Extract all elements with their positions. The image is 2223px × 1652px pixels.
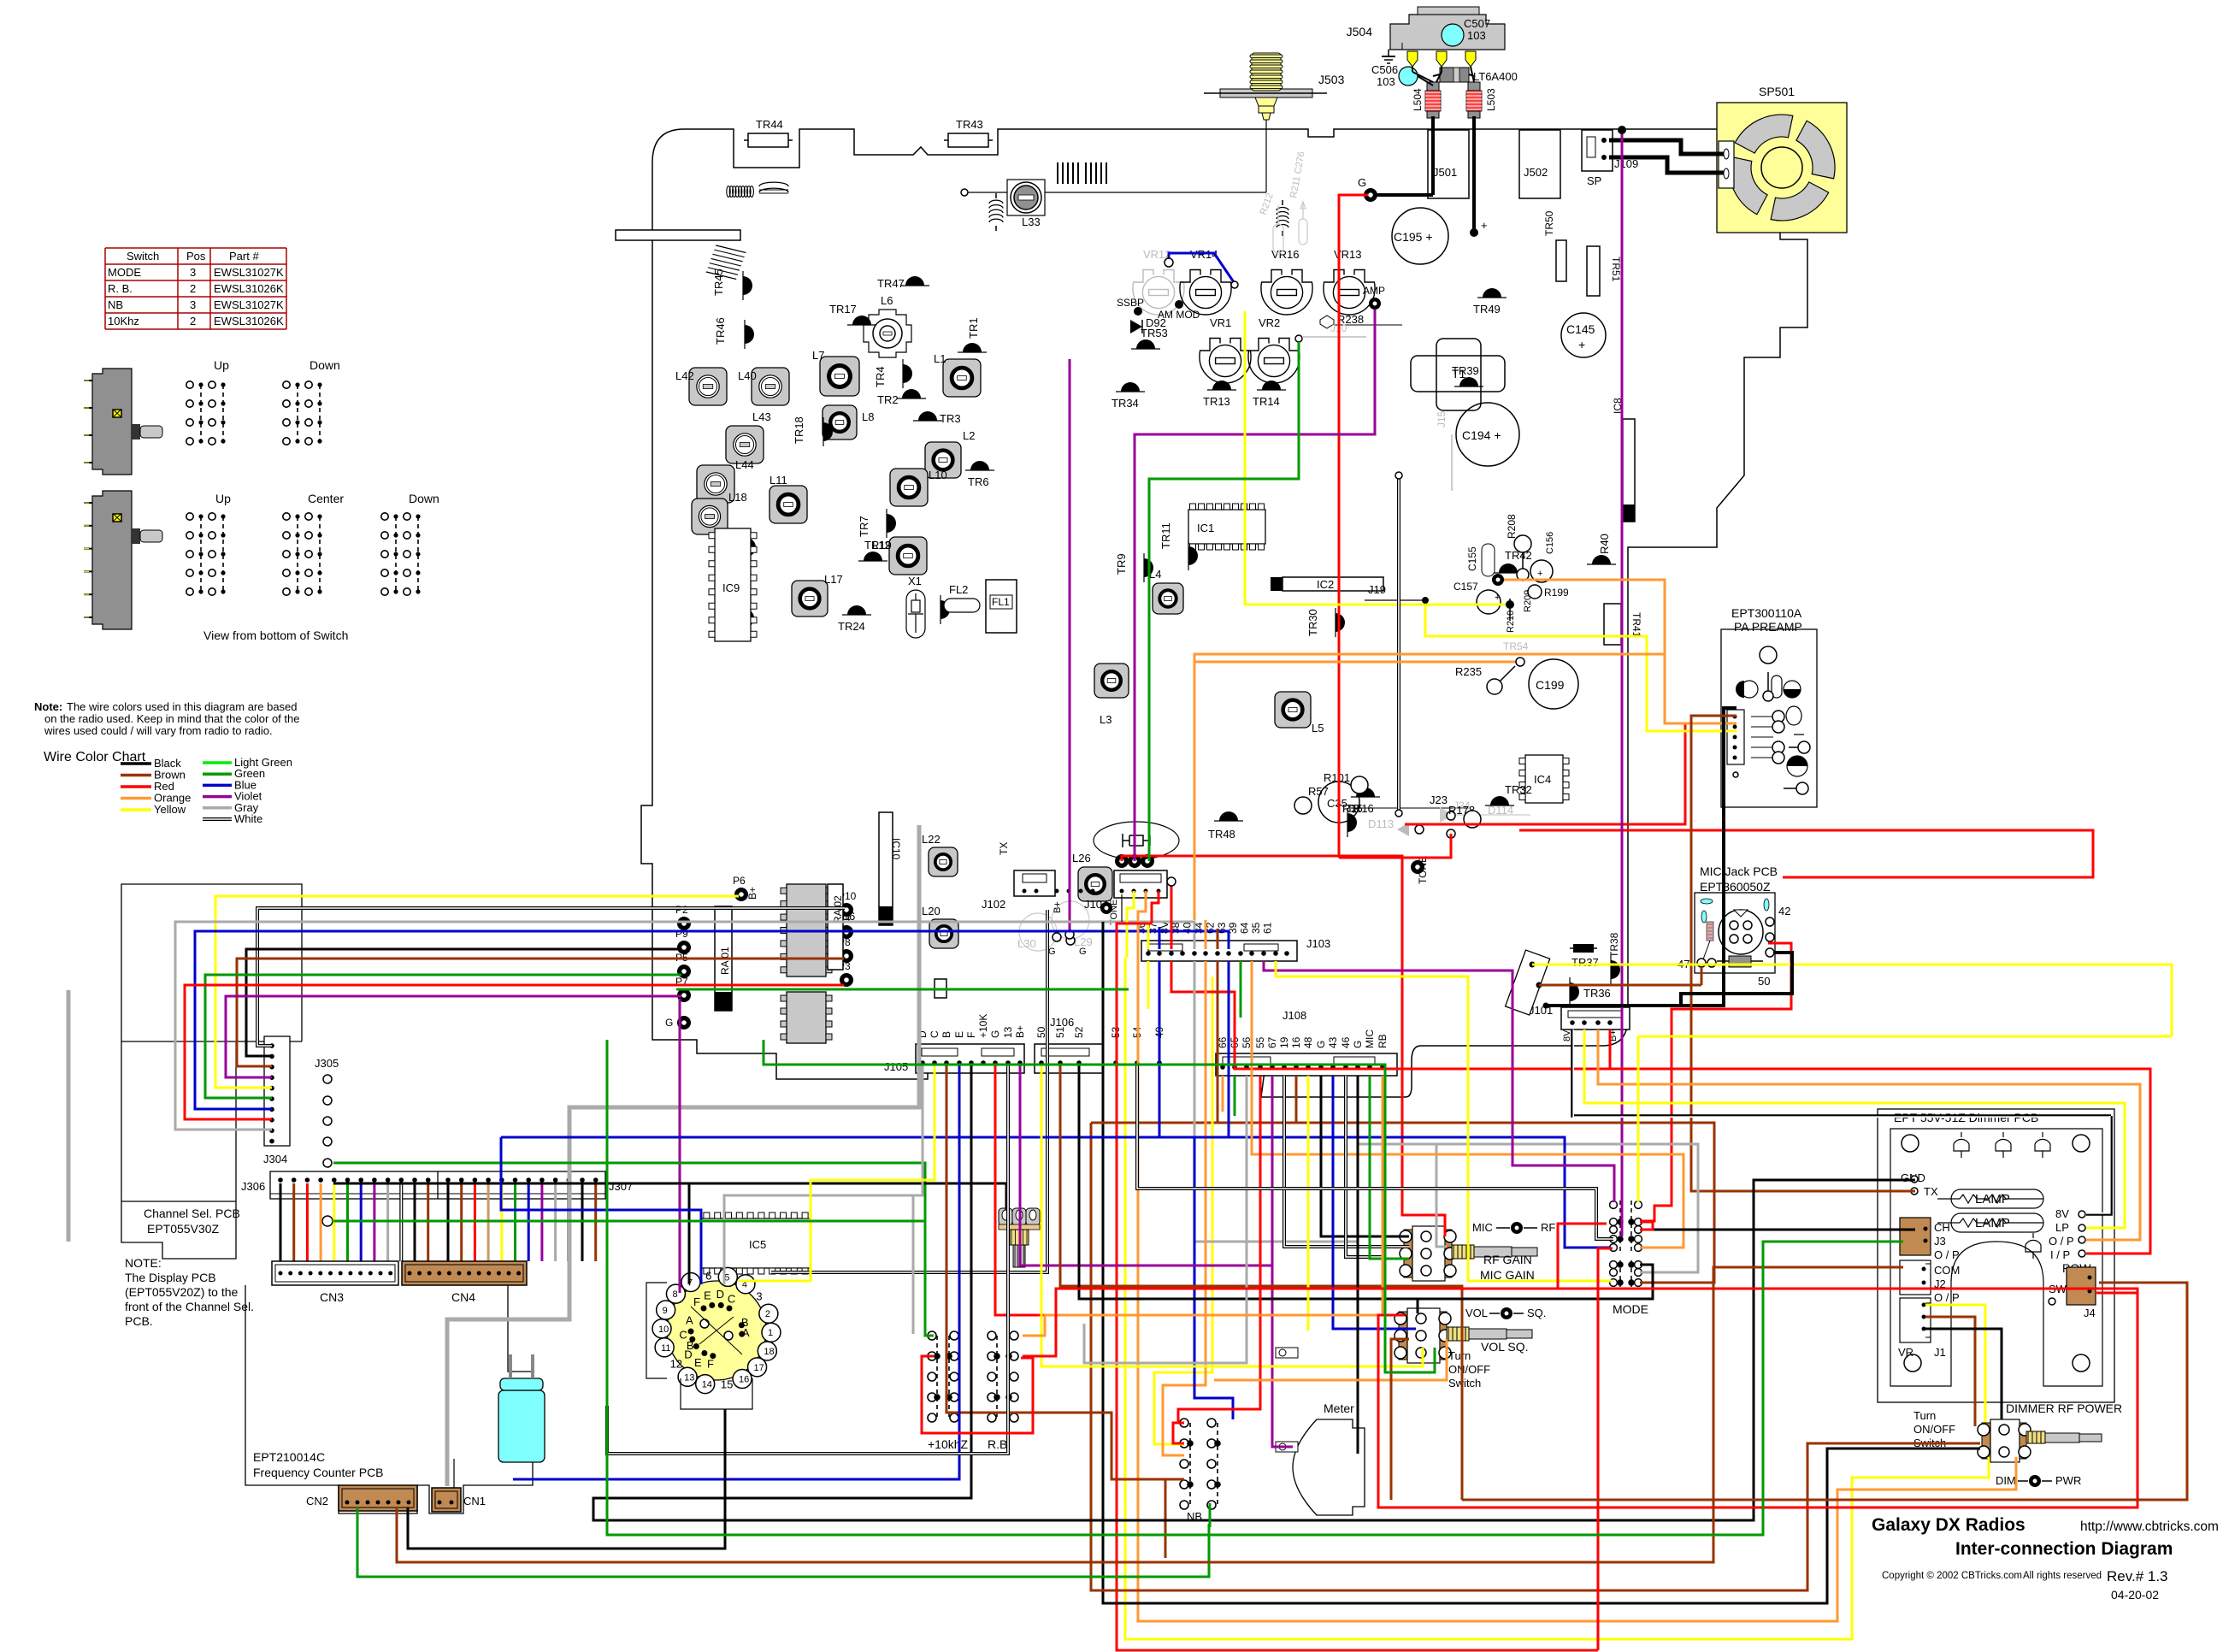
connector J504 with C507 [1390, 15, 1505, 50]
trimmer VR16 [1261, 270, 1312, 316]
transistor TR15 [1347, 808, 1357, 837]
svg-text:White: White [234, 812, 262, 825]
svg-text:EWSL31027K: EWSL31027K [214, 266, 284, 279]
svg-text:L43: L43 [752, 410, 771, 423]
svg-text:DIMMER RF POWER: DIMMER RF POWER [2006, 1401, 2122, 1415]
transistor TR8 [940, 595, 950, 624]
J108 G black to RF gain [1321, 1076, 1409, 1236]
green left vertical to dimmer J3 [607, 1040, 1903, 1535]
svg-text:C155: C155 [1466, 546, 1478, 571]
svg-text:+: + [1495, 593, 1500, 603]
svg-text:The Display PCB: The Display PCB [125, 1271, 216, 1284]
svg-text:G: G [1048, 947, 1056, 957]
IC IC1 [1188, 510, 1265, 544]
wire: red horizontal junction row [1122, 856, 1445, 1236]
svg-text:All rights reserved: All rights reserved [2023, 1571, 2102, 1581]
svg-text:Up: Up [214, 358, 229, 372]
resistor TR44 [748, 133, 788, 147]
IC2 [1282, 577, 1383, 591]
wire: black bundle to PA preamp [1546, 708, 1737, 1006]
orange VOL to left [1214, 1339, 1447, 1380]
wire: purple long from SP area down to MODE [1621, 130, 1624, 1236]
svg-text:VOL SQ.: VOL SQ. [1481, 1340, 1529, 1354]
wire color legend [121, 762, 151, 765]
capacitor C145 [1561, 313, 1606, 357]
svg-text:TR30: TR30 [1306, 609, 1319, 636]
IC IC9 [715, 528, 751, 641]
svg-text:2: 2 [765, 1309, 770, 1319]
resistor R245 coil [1277, 208, 1288, 227]
potentiometer [1404, 1230, 1412, 1277]
gray thick left vertical [67, 990, 71, 1242]
vertical bars IC8 region [1057, 162, 1058, 184]
svg-text:O / P: O / P [2049, 1235, 2074, 1248]
J103 34 orange to NB [1163, 961, 1206, 1455]
switch contact diagram [186, 513, 226, 595]
green horizontal mid [676, 988, 1129, 991]
transistor TR53 [1131, 339, 1160, 349]
speaker SP501 [1717, 103, 1847, 233]
svg-text:MIC: MIC [1364, 1030, 1376, 1048]
svg-text:R. B.: R. B. [108, 282, 133, 295]
capacitor C507 [1442, 24, 1464, 46]
blue NB drop [1194, 1137, 1233, 1419]
rotary bracket lines [646, 1283, 752, 1409]
svg-text:50: 50 [1035, 1026, 1047, 1038]
svg-text:TR24: TR24 [838, 620, 865, 633]
svg-text:C35: C35 [1327, 797, 1347, 810]
J304 connector [264, 1036, 290, 1146]
switch contact diagram [381, 513, 421, 595]
svg-text:TR54: TR54 [1503, 640, 1529, 652]
svg-text:64: 64 [1239, 922, 1251, 934]
svg-text:VR2: VR2 [1259, 316, 1280, 329]
J106 52 black to MODE [1079, 1065, 1653, 1299]
IC10 strip [879, 812, 893, 925]
J1 connector [1900, 1298, 1931, 1342]
svg-text:13: 13 [1002, 1026, 1014, 1038]
J108 55 red to NB [1178, 1076, 1260, 1423]
svg-text:D113: D113 [1368, 817, 1394, 830]
inductor L20 [929, 919, 958, 948]
svg-text:61: 61 [1261, 922, 1273, 934]
svg-text:L8: L8 [862, 410, 874, 423]
black mic50 loop [1681, 953, 1792, 1006]
svg-text:IC1: IC1 [1197, 522, 1214, 534]
svg-text:G: G [989, 1030, 1001, 1038]
J1 wires down to dimmer RF switch [1925, 1305, 1985, 1426]
svg-text:L2: L2 [963, 429, 975, 442]
svg-text:3: 3 [190, 298, 196, 311]
svg-text:16: 16 [739, 1375, 749, 1385]
svg-text:E: E [694, 1356, 702, 1369]
svg-text:L7: L7 [812, 349, 824, 362]
bottom green from CN2 [357, 1507, 1209, 1577]
R211 R212 C276 ghosts [1273, 202, 1307, 253]
svg-text:52: 52 [1073, 1026, 1085, 1038]
wire: purple upper mid down to L29 [1069, 359, 1071, 932]
svg-text:J4: J4 [2084, 1307, 2096, 1319]
brown J108-16 down [1091, 1076, 1296, 1123]
svg-text:L40: L40 [738, 369, 757, 382]
speaker wires [1609, 140, 1724, 154]
J4 connector [2067, 1267, 2096, 1305]
svg-text:04-20-02: 04-20-02 [2111, 1588, 2159, 1602]
svg-text:RF GAIN: RF GAIN [1483, 1253, 1532, 1266]
red long from RB to J4 SW and bottom loop [1023, 1289, 2137, 1507]
svg-text:http://www.cbtricks.com: http://www.cbtricks.com [2080, 1519, 2219, 1534]
J108 66 orange stub [1222, 1076, 1224, 1112]
svg-text:ON/OFF: ON/OFF [1448, 1363, 1490, 1376]
J108 67 violet to meter [1271, 1076, 1274, 1266]
svg-text:Turn: Turn [1448, 1349, 1471, 1362]
svg-text:Note:: Note: [34, 700, 62, 713]
yellow long vertical from J104 to dimmer switch [1125, 958, 1989, 1639]
svg-text:AMP: AMP [1363, 285, 1385, 297]
brown J4 POW loop [1462, 1283, 2187, 1500]
svg-text:FL2: FL2 [949, 583, 968, 596]
inductor L43 [726, 426, 764, 463]
green J102 long to VOL [764, 1040, 1435, 1372]
gray wire from CN1 up to J102 [447, 825, 919, 1486]
brown to J2 COM [1713, 1267, 1903, 1272]
MODE red from RB line [1558, 1224, 1607, 1289]
svg-text:TR53: TR53 [1141, 327, 1168, 339]
svg-text:EWSL31027K: EWSL31027K [214, 298, 284, 311]
svg-text:48: 48 [1302, 1036, 1314, 1048]
svg-text:TR6: TR6 [968, 475, 989, 488]
J105 B brown to NB [946, 1065, 1182, 1479]
svg-text:ON/OFF: ON/OFF [1913, 1423, 1955, 1436]
svg-text:SP: SP [1587, 174, 1601, 187]
filter FL2 [944, 599, 980, 612]
J101 8V white wire to dimmer [1572, 1030, 2111, 1116]
wire: black L503 down [1472, 116, 1476, 233]
svg-text:IC5: IC5 [749, 1238, 766, 1251]
J3 connector [1900, 1218, 1931, 1255]
transistor TR3 [913, 411, 942, 421]
svg-text:P6: P6 [733, 875, 746, 887]
svg-text:L3: L3 [1100, 713, 1111, 726]
transistor TR16 [1351, 788, 1380, 797]
svg-text:Rev.# 1.3: Rev.# 1.3 [2107, 1568, 2168, 1584]
inductor L40 [752, 368, 789, 405]
wire: yellow R245 down then to R210 dot [1245, 311, 1510, 605]
wire: yellow J19 to PA preamp [1425, 600, 1737, 731]
svg-text:EPT055V30Z: EPT055V30Z [147, 1222, 219, 1236]
J15 ghost [1451, 434, 1453, 491]
transistor TR49 [1477, 288, 1507, 298]
svg-text:TR37: TR37 [1571, 956, 1599, 969]
svg-text:+: + [1481, 219, 1488, 232]
rotary pin circles [718, 1267, 737, 1286]
svg-text:L26: L26 [1072, 852, 1091, 864]
transistor TR11 [1188, 541, 1198, 570]
J105 C yellow to rotary pin4 [739, 1065, 935, 1281]
svg-text:LT6A400: LT6A400 [1473, 70, 1518, 83]
svg-text:TR42: TR42 [1505, 549, 1532, 562]
J103 64 orange to MODE [1252, 961, 1683, 1248]
svg-text:L11: L11 [769, 474, 787, 487]
svg-text:J503: J503 [1318, 73, 1345, 86]
inductor L5 [1275, 692, 1311, 728]
svg-text:2: 2 [190, 282, 196, 295]
IC3 strip [935, 979, 946, 998]
violet down to rotary [679, 999, 681, 1293]
inductor L17 [792, 581, 828, 617]
svg-text:TR38: TR38 [1608, 932, 1620, 958]
J105 G red to VOL [995, 1065, 1378, 1315]
svg-text:10: 10 [658, 1325, 669, 1335]
svg-text:TR7: TR7 [858, 516, 870, 537]
drops into J103 from above [1147, 922, 1150, 949]
svg-text:TONE: TONE [1417, 856, 1429, 884]
svg-text:35: 35 [1250, 922, 1262, 934]
svg-text:D: D [684, 1348, 692, 1360]
svg-text:The wire colors used in this: The wire colors used in this diagram are… [67, 700, 298, 713]
svg-text:R235: R235 [1455, 665, 1482, 678]
trimmer VR12 [1133, 270, 1184, 316]
svg-text:F: F [707, 1357, 714, 1370]
svg-text:NOTE:: NOTE: [125, 1256, 162, 1270]
transistor TR9 [1144, 553, 1153, 582]
yellow drop to NB [1154, 976, 1212, 1444]
J108 19 white [1284, 1076, 1409, 1247]
svg-text:EPT300110A: EPT300110A [1731, 606, 1802, 620]
svg-text:3: 3 [756, 1290, 762, 1303]
svg-text:L42: L42 [675, 369, 694, 382]
J108 RB orange to RB switch [1023, 1076, 1383, 1336]
svg-text:43: 43 [1327, 1036, 1339, 1048]
svg-text:IC2: IC2 [1317, 578, 1334, 591]
svg-text:J3: J3 [1934, 1235, 1946, 1248]
svg-text:EPT360050Z: EPT360050Z [1700, 880, 1771, 894]
svg-text:TR43: TR43 [956, 118, 983, 131]
svg-text:PA PREAMP: PA PREAMP [1734, 620, 1802, 634]
svg-text:TR11: TR11 [1159, 522, 1172, 549]
J103 62 brown to J4 loop [1218, 961, 1714, 1283]
svg-text:wires used could / will vary: wires used could / will vary from radio … [44, 724, 273, 737]
svg-text:front of the Channel Sel.: front of the Channel Sel. [125, 1300, 254, 1313]
svg-text:C195 +: C195 + [1394, 230, 1433, 244]
svg-text:+: + [1578, 338, 1585, 351]
svg-text:PCB.: PCB. [125, 1314, 153, 1328]
svg-text:1: 1 [768, 1328, 773, 1338]
svg-text:CH: CH [1934, 1221, 1950, 1234]
AM MOD dot [1175, 300, 1183, 309]
Channel Sel PCB outline [121, 884, 302, 1259]
black branch to rotary [688, 1183, 691, 1284]
wire: red from G dot down left side [1339, 195, 1368, 858]
svg-text:+10khZ: +10khZ [928, 1437, 969, 1451]
slide switch side view [92, 369, 132, 475]
svg-text:Switch: Switch [127, 250, 159, 263]
transistor TR42 [1494, 563, 1523, 573]
svg-text:TR36: TR36 [1583, 987, 1611, 1000]
brown long vertical to dimmer switch [1091, 1123, 1980, 1590]
svg-text:EWSL31026K: EWSL31026K [214, 315, 284, 327]
svg-text:TR2: TR2 [877, 393, 899, 406]
capacitor C195 [1392, 208, 1448, 264]
svg-text:L33: L33 [1022, 215, 1041, 228]
svg-text:TR50: TR50 [1543, 210, 1555, 236]
transistor TR46 [745, 320, 754, 349]
svg-text:PWR: PWR [2055, 1474, 2081, 1487]
J306 J307 connector strip [270, 1171, 605, 1199]
transistor TR34 [1116, 382, 1145, 392]
transistor TR47 [900, 276, 929, 286]
svg-text:+: + [1537, 569, 1542, 579]
transistor TR19 [858, 552, 887, 561]
bottom brown from CN2 up right side [397, 1500, 1713, 1562]
MODE switch grid [1610, 1201, 1642, 1287]
svg-text:2: 2 [190, 315, 196, 327]
yellow connector pins [1407, 51, 1418, 67]
trimmer VR14 [1180, 270, 1231, 316]
main PCB outline [641, 129, 1807, 1097]
filter FL1 [986, 580, 1017, 633]
svg-text:I / P: I / P [2050, 1248, 2070, 1261]
tilted coil [706, 242, 746, 282]
connector J109 [1582, 130, 1613, 171]
svg-text:L1: L1 [934, 352, 946, 365]
RA01 IC strip [715, 906, 732, 1011]
transistor [1570, 977, 1579, 1006]
svg-text:Part #: Part # [229, 250, 259, 263]
svg-text:TR45: TR45 [712, 268, 725, 296]
svg-text:12: 12 [670, 1357, 682, 1370]
inductor L11 [769, 486, 807, 523]
svg-text:L17: L17 [824, 573, 843, 586]
J105 connector [916, 1044, 1024, 1073]
svg-text:J307: J307 [609, 1180, 633, 1193]
NB brown down-left [1165, 1479, 1184, 1558]
J101 yellow to dimmer LP [1584, 1030, 2125, 1228]
PA preamp connector [1727, 710, 1744, 764]
coil near L33 [989, 200, 1003, 222]
svg-text:L22: L22 [922, 833, 940, 846]
J105 F black to dimmer GND [593, 1065, 1915, 1520]
svg-text:Down: Down [310, 358, 340, 372]
svg-text:C157: C157 [1453, 581, 1478, 593]
R101 [1351, 776, 1368, 794]
svg-text:16: 16 [1290, 1036, 1302, 1048]
long thin bar [616, 230, 740, 240]
svg-text:MIC Jack PCB: MIC Jack PCB [1700, 864, 1778, 878]
inductor L22 [929, 847, 958, 876]
svg-text:J502: J502 [1524, 166, 1548, 179]
svg-text:C: C [679, 1329, 687, 1342]
brown from tilted conn right [1539, 984, 1701, 987]
svg-text:J305: J305 [315, 1057, 339, 1070]
SSBP dot [1134, 307, 1142, 316]
transistor TR24 [842, 605, 871, 615]
J108 48 yellow drop [1307, 1076, 1310, 1330]
J105 E blue long left [513, 1065, 959, 1479]
transistor TR25 [745, 604, 754, 633]
J504 wiring [1412, 67, 1413, 72]
antenna jack J503 [1220, 89, 1312, 97]
red loop +10k RB switches [922, 1356, 1033, 1433]
transistor TR32 [1485, 796, 1514, 805]
svg-text:R40: R40 [1598, 534, 1611, 554]
P-dot pads [734, 888, 748, 901]
svg-text:TR41: TR41 [1630, 612, 1642, 638]
J108 56 gray to NB [1084, 1076, 1247, 1363]
PA PREAMP PCB EPT300110A [1721, 629, 1817, 807]
svg-text:B+: B+ [746, 887, 758, 900]
trimmer VR13 [1324, 270, 1375, 316]
svg-text:C199: C199 [1536, 678, 1565, 692]
red long vertical to bottom right [1117, 923, 1598, 1650]
svg-text:EWSL31026K: EWSL31026K [214, 282, 284, 295]
svg-text:10Khz: 10Khz [108, 315, 139, 327]
svg-text:Turn: Turn [1913, 1409, 1936, 1422]
switch +10khZ [928, 1331, 958, 1422]
LEFT BUNDLE from J304 [215, 896, 739, 1088]
Frequency Counter PCB outline [245, 1285, 533, 1513]
CN2 connector [339, 1485, 417, 1511]
svg-text:TR44: TR44 [756, 118, 783, 131]
potentiometer [1399, 1312, 1407, 1360]
svg-text:on the radio used. Keep in min: on the radio used. Keep in mind that the… [44, 712, 299, 725]
inductor L1 [943, 359, 981, 397]
svg-text:L10: L10 [929, 469, 947, 481]
wire: orange long from L4 area to PA preamp [1194, 654, 1665, 920]
meter [1293, 1419, 1365, 1515]
J101 red drop [1609, 1030, 1612, 1069]
NB green down [1209, 1503, 1212, 1527]
svg-text:Yellow: Yellow [154, 803, 186, 816]
TR50 [1556, 240, 1566, 281]
svg-text:CN4: CN4 [451, 1290, 475, 1304]
switch NB [1180, 1419, 1220, 1509]
J106 50 yellow to VOL [1041, 1065, 1423, 1366]
yellow from tilted conn to dimmer area [1532, 965, 2172, 1036]
black CN1 to rotary [408, 1409, 725, 1549]
J108 43 blue to VOL [1332, 1076, 1335, 1137]
svg-text:17: 17 [754, 1363, 764, 1373]
coil [759, 182, 788, 192]
svg-text:B: B [940, 1031, 952, 1038]
svg-text:O / P: O / P [1934, 1248, 1960, 1261]
svg-text:L20: L20 [922, 905, 940, 917]
parts table [105, 248, 286, 329]
svg-text:CN3: CN3 [320, 1290, 344, 1304]
wire: purple from AMP down to J104 dot [1135, 310, 1375, 861]
svg-text:VR1: VR1 [1210, 316, 1231, 329]
svg-text:MIC: MIC [1472, 1221, 1493, 1234]
svg-text:J19: J19 [1368, 583, 1386, 596]
svg-text:TR34: TR34 [1111, 397, 1139, 410]
svg-text:TR3: TR3 [940, 412, 961, 425]
svg-text:VR16: VR16 [1271, 248, 1300, 261]
wire: orange TR42 dot to PA preamp [1503, 580, 1665, 723]
inductor L503 [1468, 82, 1480, 91]
rotary channel selector switch [667, 1281, 766, 1380]
svg-text:+: + [1351, 806, 1356, 817]
svg-text:TR4: TR4 [874, 366, 887, 387]
svg-text:Center: Center [308, 492, 344, 505]
wire: red D113 to PA preamp [1405, 723, 1737, 824]
svg-text:3: 3 [190, 266, 196, 279]
inductor L12 [889, 537, 927, 575]
J23 [1351, 807, 1468, 809]
svg-text:F: F [965, 1032, 977, 1038]
J103 61 yellow to VOL [1276, 961, 1612, 1281]
svg-text:Channel Sel. PCB: Channel Sel. PCB [144, 1207, 240, 1220]
svg-text:C: C [929, 1030, 940, 1038]
